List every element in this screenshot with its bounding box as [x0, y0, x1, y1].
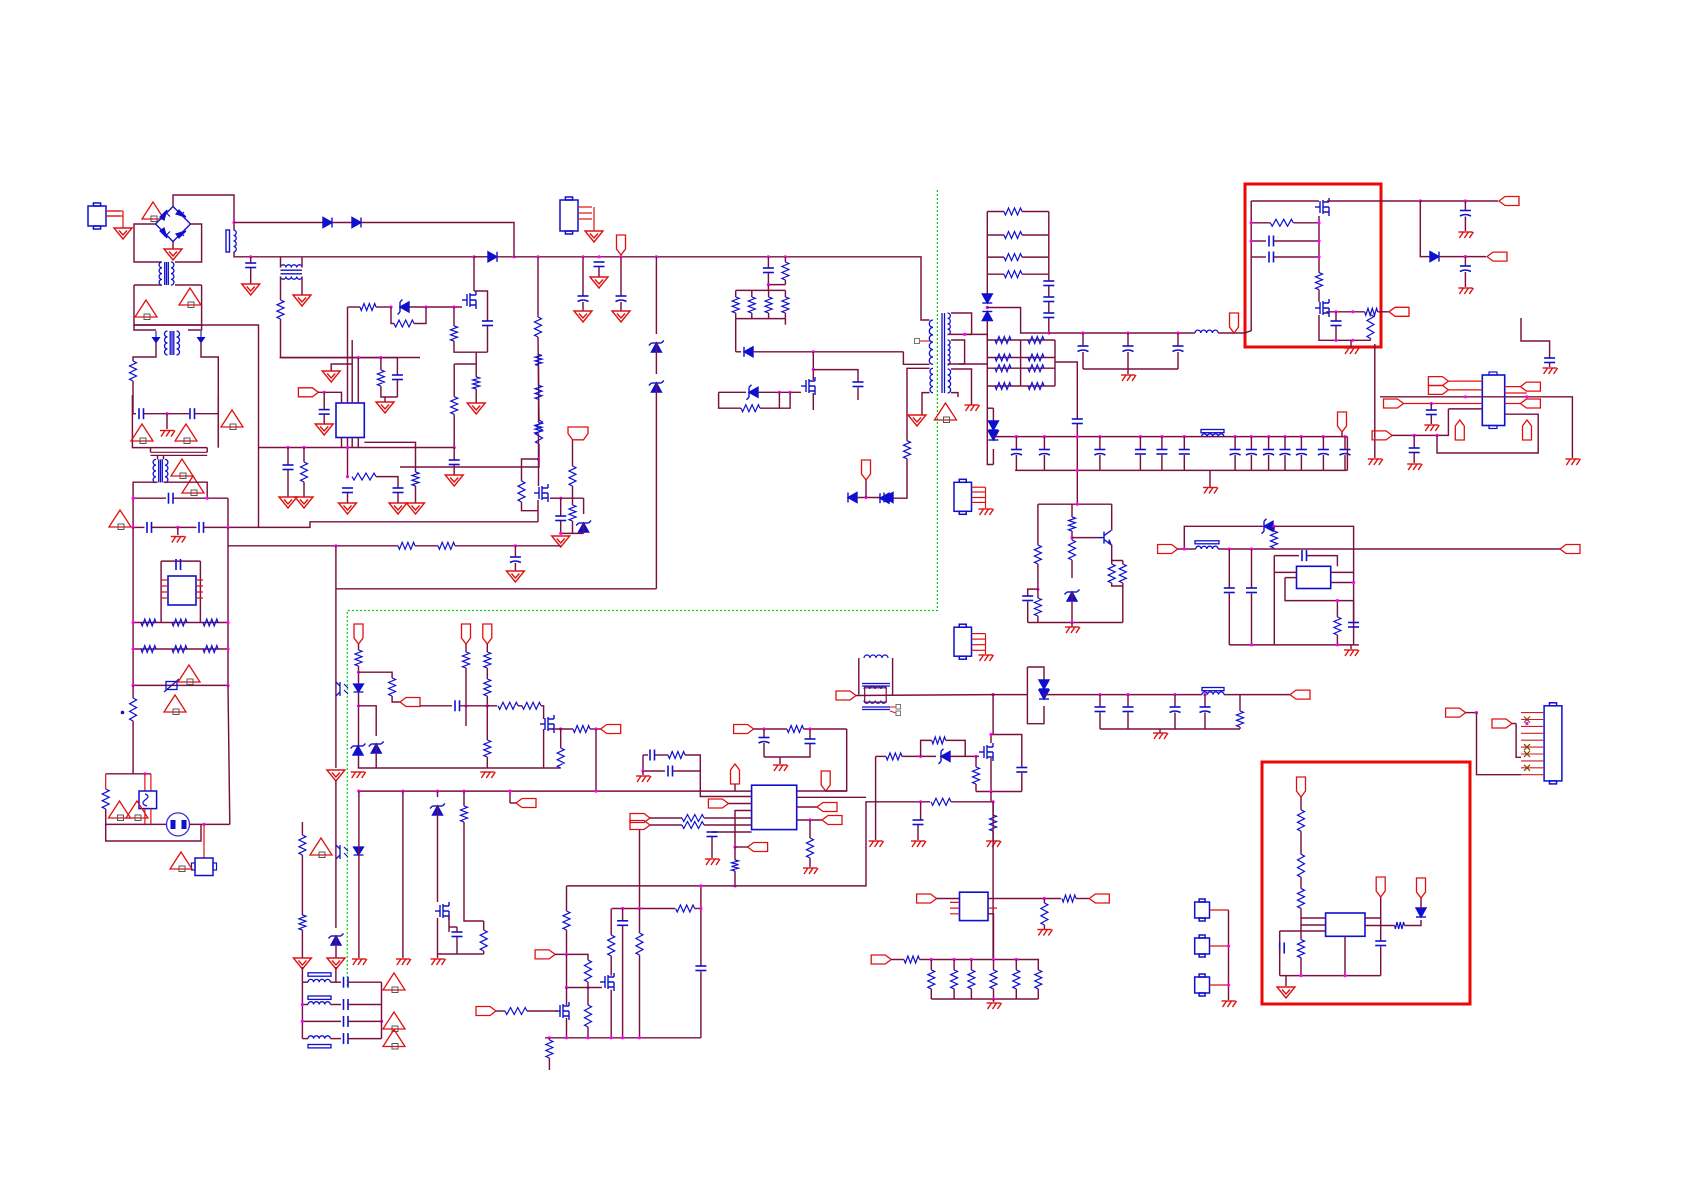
node junction: [132, 526, 135, 529]
bridge rectifier BD1: [156, 207, 191, 242]
wire: [359, 672, 393, 678]
wire: [1251, 240, 1266, 242]
node junction: [586, 986, 589, 989]
transformer T3 filter transformer: [281, 265, 303, 279]
resistor R46: [1035, 970, 1042, 989]
capacitor C31: [1269, 236, 1274, 247]
wire: [639, 830, 641, 909]
capacitor C43: [707, 832, 718, 837]
capacitor C21: [344, 999, 349, 1010]
node junction: [1475, 711, 1478, 714]
wire: [567, 954, 603, 987]
warning triangle: [164, 695, 186, 715]
wire: [1268, 437, 1270, 450]
capacitor C6f: [393, 488, 404, 493]
wire: [538, 459, 540, 486]
resistor R26: [484, 740, 491, 757]
node junction: [1076, 469, 1079, 472]
capacitor C41: [759, 738, 770, 744]
resistor R61: [1298, 810, 1305, 831]
node junction: [1351, 339, 1354, 342]
warning triangle: [135, 300, 157, 320]
wire: [348, 306, 361, 308]
wire: [449, 926, 457, 928]
capacitor C40: [668, 766, 673, 777]
resistor R39: [1270, 219, 1293, 226]
ground: [164, 249, 182, 260]
node junction: [1250, 239, 1253, 242]
section divider (isolation barrier): [347, 190, 937, 986]
wire source: [990, 758, 992, 792]
ic tab: [1489, 372, 1497, 375]
ground: [445, 475, 463, 486]
wire: [1413, 435, 1415, 448]
wire: [380, 358, 382, 370]
capacitor C6c: [319, 410, 330, 415]
node junction: [559, 532, 562, 535]
wire: [1127, 369, 1129, 374]
wire: [486, 706, 488, 740]
net flag: [516, 799, 536, 808]
wire: [711, 837, 713, 858]
wire: [639, 955, 641, 1038]
ground (earth): [979, 655, 994, 661]
wire: [160, 605, 162, 623]
capacitor C26: [1095, 707, 1106, 712]
wire: [134, 285, 202, 325]
resistor R10i: [438, 542, 455, 549]
wire: [857, 497, 880, 499]
wire: [1300, 797, 1302, 810]
wire: [538, 434, 540, 459]
capacitor C27: [1224, 588, 1235, 593]
node junction: [597, 255, 600, 258]
diode D21: [1430, 252, 1439, 262]
wire: [768, 290, 770, 297]
capacitor C8: [853, 382, 864, 387]
capacitor C17: [1246, 450, 1257, 456]
net flag: [601, 725, 621, 734]
ground: [585, 231, 603, 242]
wire: [1350, 340, 1352, 347]
wire: [106, 823, 167, 825]
net flag: [1560, 545, 1580, 554]
wire: [572, 486, 574, 505]
wire: [1273, 526, 1275, 531]
resistor R15: [1034, 545, 1041, 564]
transistor Q11: [435, 902, 449, 920]
wire: [976, 791, 1022, 793]
node junction: [762, 727, 765, 730]
wire: [1341, 432, 1343, 437]
resistor R46: [990, 970, 997, 989]
wire: [145, 809, 151, 825]
wire: [455, 545, 561, 547]
resistor R7: [451, 397, 458, 415]
resistor R46: [928, 970, 935, 989]
net flag: [731, 764, 740, 784]
wire: [233, 223, 235, 231]
node junction: [1250, 547, 1253, 550]
wire: [1437, 409, 1448, 436]
capacitor C50: [199, 522, 204, 533]
transformer T6: [862, 655, 890, 710]
wire: [768, 284, 785, 286]
wire: [987, 308, 1049, 334]
pin stubs CN2: [1521, 713, 1544, 775]
wire: [566, 988, 568, 1006]
wire: [281, 319, 421, 358]
ground: [467, 403, 485, 414]
resistor R40: [1316, 273, 1323, 290]
diode D12 zener: [1065, 590, 1080, 602]
wire: [509, 791, 511, 803]
wire: [453, 414, 455, 447]
capacitor C16: [1179, 450, 1190, 455]
wire: [951, 801, 993, 803]
wire: [1380, 947, 1382, 976]
wire: [566, 1018, 568, 1038]
wire: [561, 497, 584, 499]
ground: [327, 770, 345, 781]
capacitor C15: [1072, 419, 1083, 424]
wire: [1327, 312, 1365, 313]
wire: [358, 791, 360, 958]
wire: [1420, 201, 1430, 257]
resistor R9d: [412, 472, 419, 486]
node junction: [1043, 897, 1046, 900]
wire: [1022, 234, 1049, 236]
wire: [1350, 645, 1352, 649]
wire: [902, 755, 936, 757]
wire: [920, 802, 922, 820]
resistor R14: [1028, 383, 1044, 390]
wire: [784, 257, 786, 262]
capacitor C51: [176, 559, 181, 570]
wire emitter: [1112, 545, 1123, 561]
wire: [133, 648, 228, 650]
wire: [975, 756, 977, 767]
transistor Q10: [534, 484, 548, 502]
resistor Rr2: [172, 619, 187, 626]
ic U2: [1482, 375, 1504, 426]
polarity arrow: [198, 331, 205, 343]
wire: [402, 791, 404, 958]
wire: [400, 444, 539, 467]
node junction: [132, 497, 135, 500]
node junction: [1250, 643, 1253, 646]
node junction: [992, 800, 995, 803]
node junction: [641, 769, 644, 772]
node junction: [334, 544, 337, 547]
varistor RV1: [166, 682, 177, 690]
wire collector: [1111, 504, 1113, 530]
node junction: [1160, 435, 1163, 438]
wire: [486, 696, 488, 706]
wire: [1229, 644, 1359, 646]
wire standby rail: [856, 694, 993, 697]
node junction: [346, 446, 349, 449]
ground: [552, 536, 570, 547]
wire: [1301, 924, 1326, 926]
wire: [392, 696, 400, 702]
wire: [391, 307, 394, 324]
wire: [875, 756, 877, 801]
node junction: [594, 790, 597, 793]
resistor R49: [682, 815, 704, 822]
resistor R19: [1108, 564, 1115, 583]
wire: [301, 277, 303, 296]
wire: [734, 847, 736, 860]
wire: [1516, 724, 1521, 758]
warning triangle: [383, 1012, 405, 1032]
no-connect x marks: [1524, 717, 1530, 771]
wire: [175, 284, 202, 286]
wire standby out: [1070, 694, 1202, 696]
interlock switch SW1: [167, 813, 190, 836]
wire: [930, 960, 932, 970]
resistor R13: [995, 337, 1011, 344]
wire: [1127, 695, 1129, 707]
node junction: [930, 958, 933, 961]
node junction: [789, 391, 792, 394]
wire: [414, 307, 426, 324]
wire: [497, 256, 514, 258]
capacitor C38: [1409, 448, 1420, 453]
node junction: [452, 305, 455, 308]
wire: [993, 960, 995, 970]
wire: [133, 343, 156, 362]
wire: [1037, 564, 1039, 589]
transformer T1 line filter: [159, 262, 174, 285]
wire: [970, 989, 972, 999]
ground: [295, 497, 313, 508]
wire: [250, 268, 252, 284]
wire: [1127, 333, 1129, 346]
net flag: [817, 803, 837, 812]
wire: [951, 393, 958, 397]
wire: [1420, 200, 1498, 202]
resistor R34: [973, 767, 980, 784]
wire: [639, 909, 641, 934]
wire: [463, 791, 465, 806]
wire: [522, 459, 539, 481]
ground: [407, 503, 425, 514]
resistor R14: [1028, 365, 1044, 372]
node junction: [919, 755, 922, 758]
node junction: [1272, 525, 1275, 528]
wire: [988, 898, 1061, 900]
node junction: [1351, 310, 1354, 313]
wire: [301, 855, 303, 915]
wire: [1318, 216, 1320, 273]
resistor R23: [463, 652, 470, 668]
wire: [593, 207, 595, 231]
wire: [487, 326, 489, 352]
net flag: [1455, 420, 1464, 440]
wire: [1022, 256, 1049, 258]
wire: [453, 307, 455, 326]
node junction: [581, 255, 584, 258]
wire: [347, 307, 349, 403]
wire: [134, 325, 259, 527]
wire: [985, 487, 987, 508]
capacitor C6g: [342, 488, 353, 493]
resistor R10: [782, 297, 789, 313]
resistor R10d: [535, 423, 542, 434]
capacitor C26: [1123, 707, 1134, 712]
wire: [610, 956, 612, 976]
net flag: [1338, 412, 1347, 432]
transistor Q7: [1315, 299, 1329, 317]
ground (earth): [1458, 232, 1473, 238]
wire: [173, 195, 234, 223]
wire: [1439, 256, 1486, 258]
connector J7: [1195, 974, 1210, 996]
wire: [1204, 713, 1206, 730]
net flag: [917, 894, 937, 903]
node junction: [989, 790, 992, 793]
wire: [510, 802, 516, 804]
wire: [132, 685, 134, 698]
node junction: [1126, 331, 1129, 334]
wire: [1521, 318, 1550, 358]
wire: [1251, 200, 1319, 202]
warning triangle: [383, 1030, 405, 1050]
capacitor C54: [452, 932, 463, 937]
ground: [327, 958, 345, 969]
wire: [712, 831, 752, 833]
wire: [1239, 727, 1241, 729]
wire: [348, 981, 382, 983]
capacitor C6d: [555, 516, 566, 521]
wire: [384, 397, 386, 402]
resistor R65: [1395, 922, 1405, 929]
wire: [986, 274, 988, 294]
capacitor C26: [1170, 707, 1181, 713]
wire: [767, 273, 769, 285]
capacitor C24: [1016, 768, 1027, 773]
capacitor C17: [1263, 450, 1274, 456]
wire: [302, 1038, 308, 1040]
wire: [1318, 290, 1320, 302]
wire: [1224, 694, 1290, 696]
wire: [161, 560, 200, 562]
ic U9: [336, 403, 364, 438]
node junction: [226, 621, 229, 624]
wire: [234, 252, 281, 257]
wire: [1099, 713, 1101, 730]
wire: [1112, 583, 1123, 586]
node junction: [808, 727, 811, 730]
node junction: [143, 772, 146, 775]
resistor R64: [1298, 940, 1305, 958]
wire: [456, 937, 458, 954]
wire: [1274, 571, 1296, 573]
wire: [134, 224, 161, 262]
node junction: [559, 497, 562, 500]
resistor R41: [1365, 308, 1378, 315]
ground (earth): [1424, 425, 1439, 431]
capacitor C9: [1043, 281, 1054, 286]
wire: [1280, 930, 1326, 932]
capacitor C6h: [283, 465, 294, 470]
inductor FB4 core bar: [308, 1045, 331, 1048]
wire: [587, 1027, 589, 1038]
wire: [396, 380, 398, 397]
wire: [106, 809, 201, 841]
wire: [1139, 437, 1141, 450]
net flag: [476, 1007, 496, 1016]
net flag: [1290, 690, 1310, 699]
wire: [454, 363, 476, 365]
wire: [1284, 437, 1286, 450]
wire: [358, 666, 360, 684]
wire: [1273, 526, 1354, 645]
node junction: [986, 306, 989, 309]
resistor R38: [1334, 617, 1341, 635]
node junction: [1015, 435, 1018, 438]
wire: [590, 728, 601, 730]
wire: [474, 291, 488, 321]
wire: [420, 705, 452, 707]
warning triangle: [179, 288, 201, 308]
wire: [1344, 936, 1346, 975]
diode D4a zener: [649, 341, 664, 353]
wire: [486, 668, 488, 679]
node junction: [565, 1036, 568, 1039]
inductor T4-S3: [948, 369, 951, 393]
wire: [1204, 695, 1206, 707]
node junction: [733, 884, 736, 887]
wire: [797, 790, 847, 792]
ground (earth): [1153, 733, 1168, 739]
diode D20 zener: [1262, 519, 1274, 534]
node junction: [1250, 435, 1253, 438]
wire: [987, 234, 1004, 236]
wire: [152, 526, 197, 528]
wire: [1209, 470, 1211, 487]
net flag: [1520, 399, 1540, 408]
ground (earth): [1344, 348, 1359, 354]
wire: [287, 470, 289, 497]
resistor R13: [995, 383, 1011, 390]
node junction: [1317, 255, 1320, 258]
wire: [1037, 589, 1039, 598]
resistor R9e: [301, 462, 308, 482]
wire: [992, 449, 994, 465]
node junction: [808, 818, 811, 821]
resistor R10c: [535, 385, 542, 399]
wire bus: [281, 256, 474, 258]
wire: [809, 820, 811, 838]
wire: [302, 981, 308, 983]
wire: [1043, 899, 1045, 904]
transformer T7: [153, 459, 168, 482]
node junction: [537, 457, 540, 460]
wire: [784, 319, 786, 325]
wire: [381, 386, 398, 397]
wire: [937, 898, 960, 900]
wire: [1048, 318, 1050, 333]
net flag: [630, 821, 650, 830]
node junction: [699, 907, 702, 910]
wire: [1161, 455, 1163, 470]
wire: [1055, 362, 1077, 419]
inductor L5: [1202, 692, 1224, 695]
resistor R60: [102, 789, 109, 809]
ground (earth): [1121, 375, 1136, 381]
